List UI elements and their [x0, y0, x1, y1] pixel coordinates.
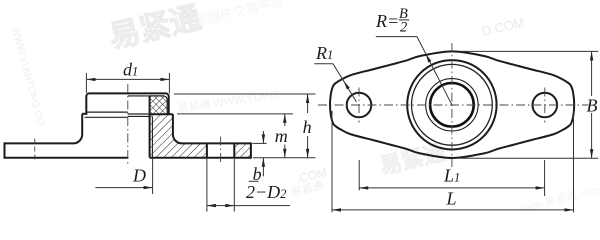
svg-text:b: b [253, 164, 262, 184]
svg-text:L: L [446, 189, 457, 209]
svg-text:m: m [275, 126, 288, 146]
svg-text:D: D [132, 165, 146, 185]
svg-text:B: B [587, 95, 598, 115]
svg-text:R=: R= [375, 11, 399, 31]
svg-text:2: 2 [400, 20, 407, 36]
svg-text:h: h [303, 117, 312, 137]
